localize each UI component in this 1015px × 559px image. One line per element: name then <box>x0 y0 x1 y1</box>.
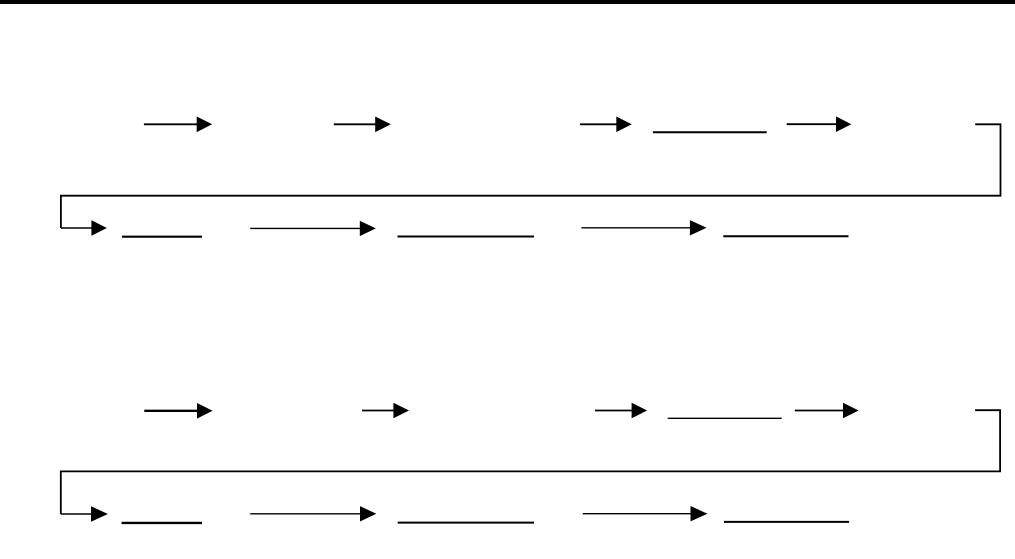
flow 1 row 1 blank underline <box>653 131 767 133</box>
flow 1 row 1 arrow C head <box>616 117 631 133</box>
flow 2 row 2 blank underline 2 <box>398 522 534 524</box>
flow 2 row 1 arrow B shaft <box>362 410 394 412</box>
flow 1 row 2 blank underline 3 <box>723 235 848 237</box>
top header bar <box>0 0 1015 4</box>
flow 2 row 2 entry arrow E shaft <box>61 513 93 515</box>
flow 1 row 2 arrow F head <box>360 221 376 236</box>
flow 1 row 1 arrow C shaft <box>580 123 617 125</box>
flow 1 row 1 arrow A head <box>197 117 212 133</box>
flow 2 row 2 arrow F shaft <box>250 513 360 515</box>
flow 1 row 1 arrow B head <box>375 117 391 133</box>
flow 2 row 2 arrow G shaft <box>583 513 692 515</box>
flow 1 wrap connector <box>61 124 1001 228</box>
flow 1 row 1 arrow A shaft <box>144 123 198 125</box>
flow 2 row 2 arrow G head <box>691 506 708 521</box>
flow 2 wrap connector <box>61 410 1000 514</box>
flow 1 row 2 arrow G head <box>690 220 707 235</box>
flow 2 row 1 arrow B head <box>393 403 409 419</box>
flow 2 row 1 blank underline <box>668 417 782 419</box>
flow 1 row 1 arrow B shaft <box>334 123 377 125</box>
flow 2 row 1 arrow A shaft <box>144 410 198 412</box>
flow 1 row 1 arrow D shaft <box>787 123 838 125</box>
flow 1 row 2 entry arrow E head <box>91 220 107 235</box>
flow 1 row 2 blank underline 2 <box>398 236 535 238</box>
flow 2 row 2 entry arrow E head <box>91 506 108 522</box>
flow 1 row 2 entry arrow E shaft <box>61 227 93 229</box>
flow 2 row 1 arrow C head <box>632 403 648 419</box>
flow 2 row 1 arrow A head <box>197 403 213 419</box>
flow 1 row 2 blank underline 1 <box>122 236 202 238</box>
flow 2 row 2 blank underline 3 <box>724 521 849 523</box>
flow 2 row 2 blank underline 1 <box>122 522 202 524</box>
flow 1 row 2 arrow G shaft <box>581 227 691 229</box>
flow 2 row 2 arrow F head <box>360 506 376 521</box>
flow 2 row 1 arrow D shaft <box>795 410 844 412</box>
flow 1 row 1 arrow D head <box>836 116 851 132</box>
flow 2 row 1 arrow C shaft <box>595 410 633 412</box>
flow 1 row 2 arrow F shaft <box>250 227 360 229</box>
flow 2 row 1 arrow D head <box>843 403 859 419</box>
